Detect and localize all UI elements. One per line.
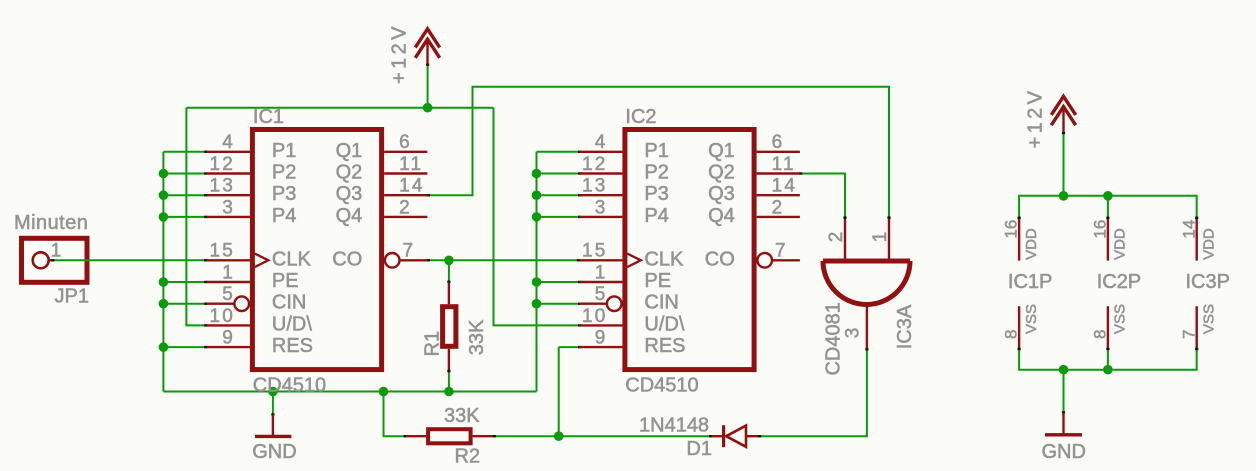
wire IC2 RES down to D1 row bbox=[558, 347, 560, 436]
wire stub to IC1 P3 bbox=[163, 194, 206, 196]
junction IC2 bus at P2 row bbox=[532, 169, 542, 179]
svg-text:P2: P2 bbox=[644, 162, 668, 184]
svg-text:3: 3 bbox=[222, 197, 235, 218]
resistor R1 bottom lead bbox=[448, 349, 450, 371]
svg-text:16: 16 bbox=[1002, 220, 1021, 239]
svg-text:CLK: CLK bbox=[272, 248, 312, 270]
connector JP1 body bbox=[22, 238, 88, 282]
IC2 pin 14 (Q3) lead bbox=[757, 194, 800, 196]
svg-text:6: 6 bbox=[772, 132, 785, 153]
junction IC2 bus at P4 row bbox=[532, 212, 542, 222]
svg-text:VSS: VSS bbox=[1023, 304, 1040, 334]
svg-text:Minuten: Minuten bbox=[14, 212, 88, 234]
wire GND stem (left symbol) bbox=[272, 392, 274, 416]
svg-text:4: 4 bbox=[595, 132, 608, 153]
diode D1 cathode lead bbox=[712, 435, 723, 437]
wire stub to IC2 P3 bbox=[537, 194, 581, 196]
clock input wedge IC1 pin CLK bbox=[255, 254, 269, 268]
svg-text:+12V: +12V bbox=[1025, 88, 1047, 149]
svg-text:1N4148: 1N4148 bbox=[639, 415, 709, 437]
IC2 pin 4 (P1) lead bbox=[579, 151, 622, 153]
junction IC2P VSS bbox=[1103, 365, 1113, 375]
svg-text:15: 15 bbox=[209, 241, 235, 262]
svg-text:7: 7 bbox=[1179, 330, 1198, 339]
svg-text:VDD: VDD bbox=[1112, 228, 1129, 260]
svg-text:PE: PE bbox=[644, 270, 671, 292]
svg-text:10: 10 bbox=[582, 306, 608, 327]
IC2 pin 15 (CLK) lead bbox=[579, 259, 622, 261]
wire IC1 CO to IC2 CLK bbox=[428, 259, 580, 261]
wire stub to IC2 PE bbox=[537, 281, 581, 283]
inversion bubble IC1 CIN bbox=[234, 296, 249, 311]
power symbol +12V (right) bbox=[1051, 96, 1075, 132]
svg-text:D1: D1 bbox=[686, 438, 712, 460]
svg-text:P3: P3 bbox=[644, 183, 668, 205]
junction IC2 RES net at R2/D1 row bbox=[554, 431, 564, 441]
wire D1 anode to gate output bbox=[759, 349, 867, 437]
svg-text:Q1: Q1 bbox=[336, 140, 363, 162]
IC1 pin 15 (CLK) lead bbox=[207, 259, 250, 261]
svg-text:12: 12 bbox=[582, 154, 608, 175]
svg-text:16: 16 bbox=[1091, 220, 1110, 239]
wire GND stem (right symbol) bbox=[1063, 370, 1065, 413]
wire IC2 RES stub bbox=[559, 346, 581, 348]
junction on line A at P3 row bbox=[159, 190, 169, 200]
wire +12V stem (right symbol) bbox=[1063, 132, 1065, 195]
IC2 pin 12 (P2) lead bbox=[579, 172, 622, 174]
junction +12V stem bbox=[423, 103, 433, 113]
junction on line A at PE row bbox=[159, 277, 169, 287]
wire +12V net horizontal top bbox=[186, 107, 493, 109]
power part IC1P VSS pin lead bbox=[1018, 306, 1020, 349]
wire stub to IC2 P2 bbox=[537, 173, 581, 175]
svg-text:VDD: VDD bbox=[1201, 228, 1218, 260]
svg-text:P4: P4 bbox=[644, 205, 668, 227]
junction at R1 top / CO bbox=[444, 255, 454, 265]
wire IC2P VSS rise bbox=[1107, 350, 1109, 370]
junction IC2 bus at CIN row bbox=[532, 299, 542, 309]
IC body IC2 bbox=[625, 130, 754, 370]
svg-text:Q2: Q2 bbox=[708, 162, 735, 184]
svg-text:IC1P: IC1P bbox=[1008, 271, 1052, 293]
svg-text:P1: P1 bbox=[272, 140, 296, 162]
ground symbol GND (right) bbox=[1062, 412, 1064, 434]
resistor R2 left lead bbox=[406, 435, 426, 437]
wire stub to IC1 P4 bbox=[163, 216, 206, 218]
svg-text:14: 14 bbox=[1179, 220, 1198, 239]
svg-text:5: 5 bbox=[222, 284, 235, 305]
svg-text:1: 1 bbox=[222, 262, 235, 283]
svg-text:U/D\: U/D\ bbox=[644, 313, 684, 335]
IC1 pin 13 (P3) lead bbox=[207, 194, 250, 196]
IC1 pin 14 (Q3) lead bbox=[384, 194, 427, 196]
svg-text:7: 7 bbox=[775, 241, 788, 262]
svg-text:IC2P: IC2P bbox=[1097, 271, 1141, 293]
IC1 pin 3 (P4) lead bbox=[207, 216, 250, 218]
gate IC3A input pin 1 lead bbox=[888, 217, 890, 259]
IC1 pin 2 (Q4) lead bbox=[384, 216, 427, 218]
wire R1 bottom to GND rail bbox=[448, 371, 450, 392]
wire stub to IC1 CIN bbox=[163, 303, 206, 305]
svg-text:12: 12 bbox=[209, 154, 235, 175]
wire stub to IC1 P1 bbox=[163, 151, 206, 153]
svg-text:GND: GND bbox=[252, 441, 296, 463]
wire +12V stem (left symbol) bbox=[427, 65, 429, 108]
IC2 pin 3 (P4) lead bbox=[579, 216, 622, 218]
wire stub to IC1 RES bbox=[163, 346, 206, 348]
svg-text:CIN: CIN bbox=[644, 292, 678, 314]
junction on line A at CIN row bbox=[159, 299, 169, 309]
svg-text:9: 9 bbox=[222, 328, 235, 349]
wire GND bus vertical (line A) left of IC1 bbox=[162, 152, 164, 392]
junction GND stem bbox=[268, 387, 278, 397]
wire stub to IC1 PE bbox=[163, 281, 206, 283]
IC1 pin 1 (PE) lead bbox=[207, 281, 250, 283]
svg-text:1: 1 bbox=[870, 232, 891, 243]
wire IC1 Q3 to gate pin 1 bbox=[427, 87, 889, 217]
wire +12V net vertical (line B) to IC1 U/D bbox=[186, 108, 206, 326]
svg-text:8: 8 bbox=[1091, 330, 1110, 339]
IC2 pin 9 (RES) lead bbox=[579, 346, 622, 348]
power part IC3P VDD pin lead bbox=[1195, 217, 1197, 260]
IC1 pin 11 (Q2) lead bbox=[384, 172, 427, 174]
wire GND rail horizontal bbox=[163, 391, 536, 393]
svg-text:CIN: CIN bbox=[272, 292, 306, 314]
clock input wedge IC2 pin CLK bbox=[627, 254, 641, 268]
svg-text:P2: P2 bbox=[272, 162, 296, 184]
IC1 pin 9 (RES) lead bbox=[207, 346, 250, 348]
junction R1 at GND rail bbox=[444, 387, 454, 397]
IC2 pin 13 (P3) lead bbox=[579, 194, 622, 196]
svg-text:CD4081: CD4081 bbox=[822, 302, 844, 375]
svg-text:IC3P: IC3P bbox=[1186, 271, 1230, 293]
wire stub to IC2 CIN bbox=[537, 303, 581, 305]
svg-text:VSS: VSS bbox=[1201, 304, 1218, 334]
resistor R2 body bbox=[428, 429, 471, 443]
diode D1 anode lead bbox=[746, 435, 759, 437]
svg-text:P3: P3 bbox=[272, 183, 296, 205]
power part IC2P VDD pin lead bbox=[1107, 217, 1109, 260]
IC2 pin 10 (U/D\) lead bbox=[579, 324, 622, 326]
inversion bubble IC1 CO bbox=[385, 253, 400, 268]
junction on line A at P2 row bbox=[159, 169, 169, 179]
svg-text:JP1: JP1 bbox=[55, 285, 89, 307]
junction GND at VSS rail bbox=[1059, 365, 1069, 375]
wire GND bus vertical left of IC2 bbox=[536, 152, 538, 392]
resistor R1 top lead bbox=[448, 282, 450, 304]
svg-text:11: 11 bbox=[399, 154, 423, 175]
diode D1 cathode bar bbox=[722, 425, 725, 447]
wire rail down to R2 left bbox=[384, 392, 406, 437]
svg-text:3: 3 bbox=[842, 328, 863, 339]
svg-text:CD4510: CD4510 bbox=[625, 374, 698, 396]
svg-text:33K: 33K bbox=[466, 319, 488, 355]
wire IC2P VDD drop bbox=[1107, 196, 1109, 217]
IC1 pin 10 (U/D\) lead bbox=[207, 324, 250, 326]
wire CO junction down to R1 bbox=[448, 260, 450, 282]
junction IC2P VDD bbox=[1103, 191, 1113, 201]
IC1 pin 4 (P1) lead bbox=[207, 151, 250, 153]
gate IC3A output pin 3 lead bbox=[866, 305, 868, 349]
svg-text:R2: R2 bbox=[455, 446, 481, 468]
wire IC2 Q2 to gate pin 2 bbox=[800, 174, 845, 217]
svg-text:15: 15 bbox=[582, 241, 608, 262]
IC1 pin 5 (CIN) lead bbox=[207, 303, 234, 305]
IC2 pin 1 (PE) lead bbox=[579, 281, 622, 283]
svg-text:PE: PE bbox=[272, 270, 299, 292]
wire stub to IC1 P2 bbox=[163, 173, 206, 175]
svg-text:Q1: Q1 bbox=[708, 140, 735, 162]
svg-text:2: 2 bbox=[826, 232, 847, 243]
wire R2 right to D1 cathode bbox=[494, 435, 712, 437]
svg-text:4: 4 bbox=[222, 132, 235, 153]
ground symbol GND (left) bbox=[272, 414, 274, 436]
svg-text:7: 7 bbox=[403, 241, 416, 262]
IC2 pin 5 (CIN) lead bbox=[579, 303, 606, 305]
svg-text:13: 13 bbox=[209, 176, 235, 197]
power symbol +12V (left) bbox=[415, 29, 439, 65]
connector JP1 pin 1 lead bbox=[49, 259, 52, 261]
svg-text:CD4510: CD4510 bbox=[253, 374, 326, 396]
svg-text:6: 6 bbox=[399, 132, 412, 153]
power part IC1P VDD pin lead bbox=[1018, 217, 1020, 260]
svg-text:IC1: IC1 bbox=[253, 106, 284, 128]
svg-text:Q3: Q3 bbox=[336, 183, 363, 205]
junction IC2 bus at P3 row bbox=[532, 190, 542, 200]
wire VDD rail top right bbox=[1019, 196, 1197, 217]
svg-text:2: 2 bbox=[399, 197, 412, 218]
svg-text:U/D\: U/D\ bbox=[272, 313, 312, 335]
resistor R2 right lead bbox=[473, 435, 494, 437]
svg-text:P4: P4 bbox=[272, 205, 296, 227]
svg-text:Q4: Q4 bbox=[336, 205, 363, 227]
svg-text:VSS: VSS bbox=[1112, 304, 1129, 334]
AND gate IC3A body (CD4081) bbox=[823, 261, 910, 305]
wire VSS rail bottom right bbox=[1019, 350, 1197, 370]
svg-text:Q2: Q2 bbox=[336, 162, 363, 184]
wire stub to IC2 P4 bbox=[537, 216, 581, 218]
IC1 pin 12 (P2) lead bbox=[207, 172, 250, 174]
svg-text:CO: CO bbox=[332, 248, 362, 270]
svg-text:11: 11 bbox=[772, 154, 796, 175]
svg-text:CLK: CLK bbox=[644, 248, 684, 270]
svg-text:14: 14 bbox=[399, 176, 425, 197]
power part IC3P VSS pin lead bbox=[1195, 306, 1197, 349]
svg-text:Q4: Q4 bbox=[708, 205, 735, 227]
IC1 pin 6 (Q1) lead bbox=[384, 151, 427, 153]
svg-text:RES: RES bbox=[644, 335, 685, 357]
svg-text:13: 13 bbox=[582, 176, 608, 197]
svg-text:10: 10 bbox=[209, 306, 235, 327]
inversion bubble IC2 CO bbox=[757, 253, 772, 268]
svg-text:14: 14 bbox=[772, 176, 798, 197]
svg-text:1: 1 bbox=[51, 240, 62, 261]
svg-text:IC3A: IC3A bbox=[894, 304, 916, 349]
junction +12V at VDD rail bbox=[1059, 191, 1069, 201]
svg-text:3: 3 bbox=[595, 197, 608, 218]
svg-text:1: 1 bbox=[595, 262, 608, 283]
wire stub to IC2 P1 bbox=[537, 151, 581, 153]
svg-text:VDD: VDD bbox=[1023, 228, 1040, 260]
inversion bubble IC2 CIN bbox=[607, 296, 622, 311]
svg-text:9: 9 bbox=[595, 328, 608, 349]
wire JP1 pin1 to IC1 CLK bbox=[52, 259, 207, 261]
power part IC2P VSS pin lead bbox=[1107, 306, 1109, 349]
svg-text:Q3: Q3 bbox=[708, 183, 735, 205]
junction on line A at RES row bbox=[159, 342, 169, 352]
svg-text:RES: RES bbox=[272, 335, 313, 357]
svg-text:IC2: IC2 bbox=[625, 106, 656, 128]
svg-text:5: 5 bbox=[595, 284, 608, 305]
svg-text:+12V: +12V bbox=[389, 23, 411, 84]
IC2 pin 11 (Q2) lead bbox=[757, 172, 800, 174]
svg-text:R1: R1 bbox=[421, 331, 443, 357]
svg-text:CO: CO bbox=[705, 248, 735, 270]
svg-text:33K: 33K bbox=[444, 405, 480, 427]
svg-text:2: 2 bbox=[772, 197, 785, 218]
svg-text:P1: P1 bbox=[644, 140, 668, 162]
svg-text:GND: GND bbox=[1042, 441, 1086, 463]
resistor R1 body bbox=[443, 307, 456, 347]
junction IC2 bus at PE row bbox=[532, 277, 542, 287]
wire +12V net down to IC2 U/D bbox=[494, 108, 581, 326]
IC2 pin 2 (Q4) lead bbox=[757, 216, 800, 218]
junction R2 drop bbox=[379, 387, 389, 397]
svg-text:8: 8 bbox=[1002, 330, 1021, 339]
junction on line A at P4 row bbox=[159, 212, 169, 222]
IC body IC1 bbox=[252, 130, 381, 370]
IC2 pin 6 (Q1) lead bbox=[757, 151, 800, 153]
gate IC3A input pin 2 lead bbox=[844, 217, 846, 259]
connector JP1 pin 1 circle bbox=[33, 252, 49, 268]
diode D1 triangle bbox=[726, 426, 746, 447]
